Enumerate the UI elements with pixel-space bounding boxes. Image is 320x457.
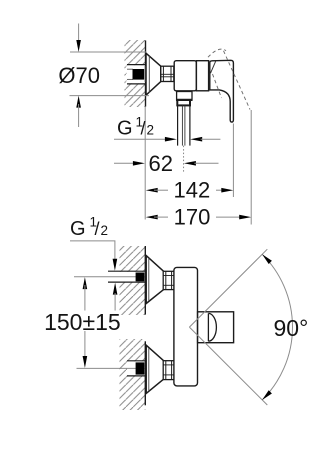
arc arrowhead lower — [262, 390, 272, 400]
label G 1/2 (top view) — [114, 115, 220, 142]
svg-text:142: 142 — [174, 178, 211, 203]
shower outlet block under body — [177, 92, 192, 100]
svg-text:170: 170 — [174, 205, 211, 230]
wall hatch upper (bottom view) — [120, 246, 146, 315]
label G 1/2 (bottom view) — [70, 215, 117, 311]
mixer body (bottom view) — [174, 267, 198, 386]
raised lever position (dashed) — [208, 49, 226, 57]
wall hatch lower (bottom view) — [120, 339, 146, 410]
upper hex nut (bottom view) — [163, 271, 174, 289]
lever handle (bottom view, pointing at viewer) — [198, 312, 234, 343]
svg-text:/: / — [95, 219, 100, 239]
svg-text:90°: 90° — [274, 315, 309, 341]
shower hose outer walls — [177, 105, 179, 145]
svg-text:/: / — [141, 119, 146, 139]
swing range lines (90°) — [189, 249, 267, 327]
svg-text:2: 2 — [101, 223, 109, 238]
handle front slant line — [211, 61, 216, 73]
90° arc — [262, 254, 292, 400]
lower escutcheon (bottom view) — [146, 345, 164, 393]
hose collar nut — [177, 100, 190, 105]
svg-text:150±15: 150±15 — [44, 309, 121, 335]
dimension Ø70 — [58, 24, 149, 128]
escutcheon cone (top view) — [146, 53, 161, 95]
svg-text:62: 62 — [149, 151, 173, 176]
wall face extension line down to dimensions — [144, 107, 146, 220]
arc arrowhead upper — [262, 254, 272, 264]
hose centreline (dotted) — [183, 146, 185, 172]
S-union hex nut (top view) — [161, 66, 174, 81]
dimension 142 — [146, 178, 234, 203]
upper supply pipe (bottom view) — [108, 271, 145, 282]
upper escutcheon (bottom view) — [146, 256, 164, 304]
svg-text:2: 2 — [147, 123, 155, 138]
svg-text:G: G — [70, 218, 86, 240]
svg-text:Ø70: Ø70 — [58, 63, 100, 88]
cartridge cap block (top view) — [196, 61, 208, 91]
lever handle (top view, solid position) — [210, 60, 234, 122]
dimension 170 — [146, 205, 252, 230]
escutcheon inner ring line — [148, 56, 150, 93]
extension line from raised lever tip (170 dim) — [250, 110, 252, 225]
dimension 62 — [114, 151, 219, 176]
svg-text:G: G — [117, 118, 133, 140]
mixer body block (top view) — [174, 61, 196, 91]
wall face line lower (bottom view) — [144, 341, 146, 405]
extension line from lever tip (142 dim) — [232, 124, 234, 198]
dimension 150±15 — [44, 277, 145, 369]
shower hose inner walls — [181, 105, 183, 145]
wall hatch (top view) — [125, 40, 146, 107]
supply pipe in wall (top view) — [127, 65, 146, 84]
wall face line (top view) — [145, 41, 147, 107]
lower supply pipe (bottom view) — [127, 361, 145, 376]
lower hex nut (bottom view) — [163, 361, 174, 380]
wall face line upper (bottom view) — [144, 246, 146, 315]
